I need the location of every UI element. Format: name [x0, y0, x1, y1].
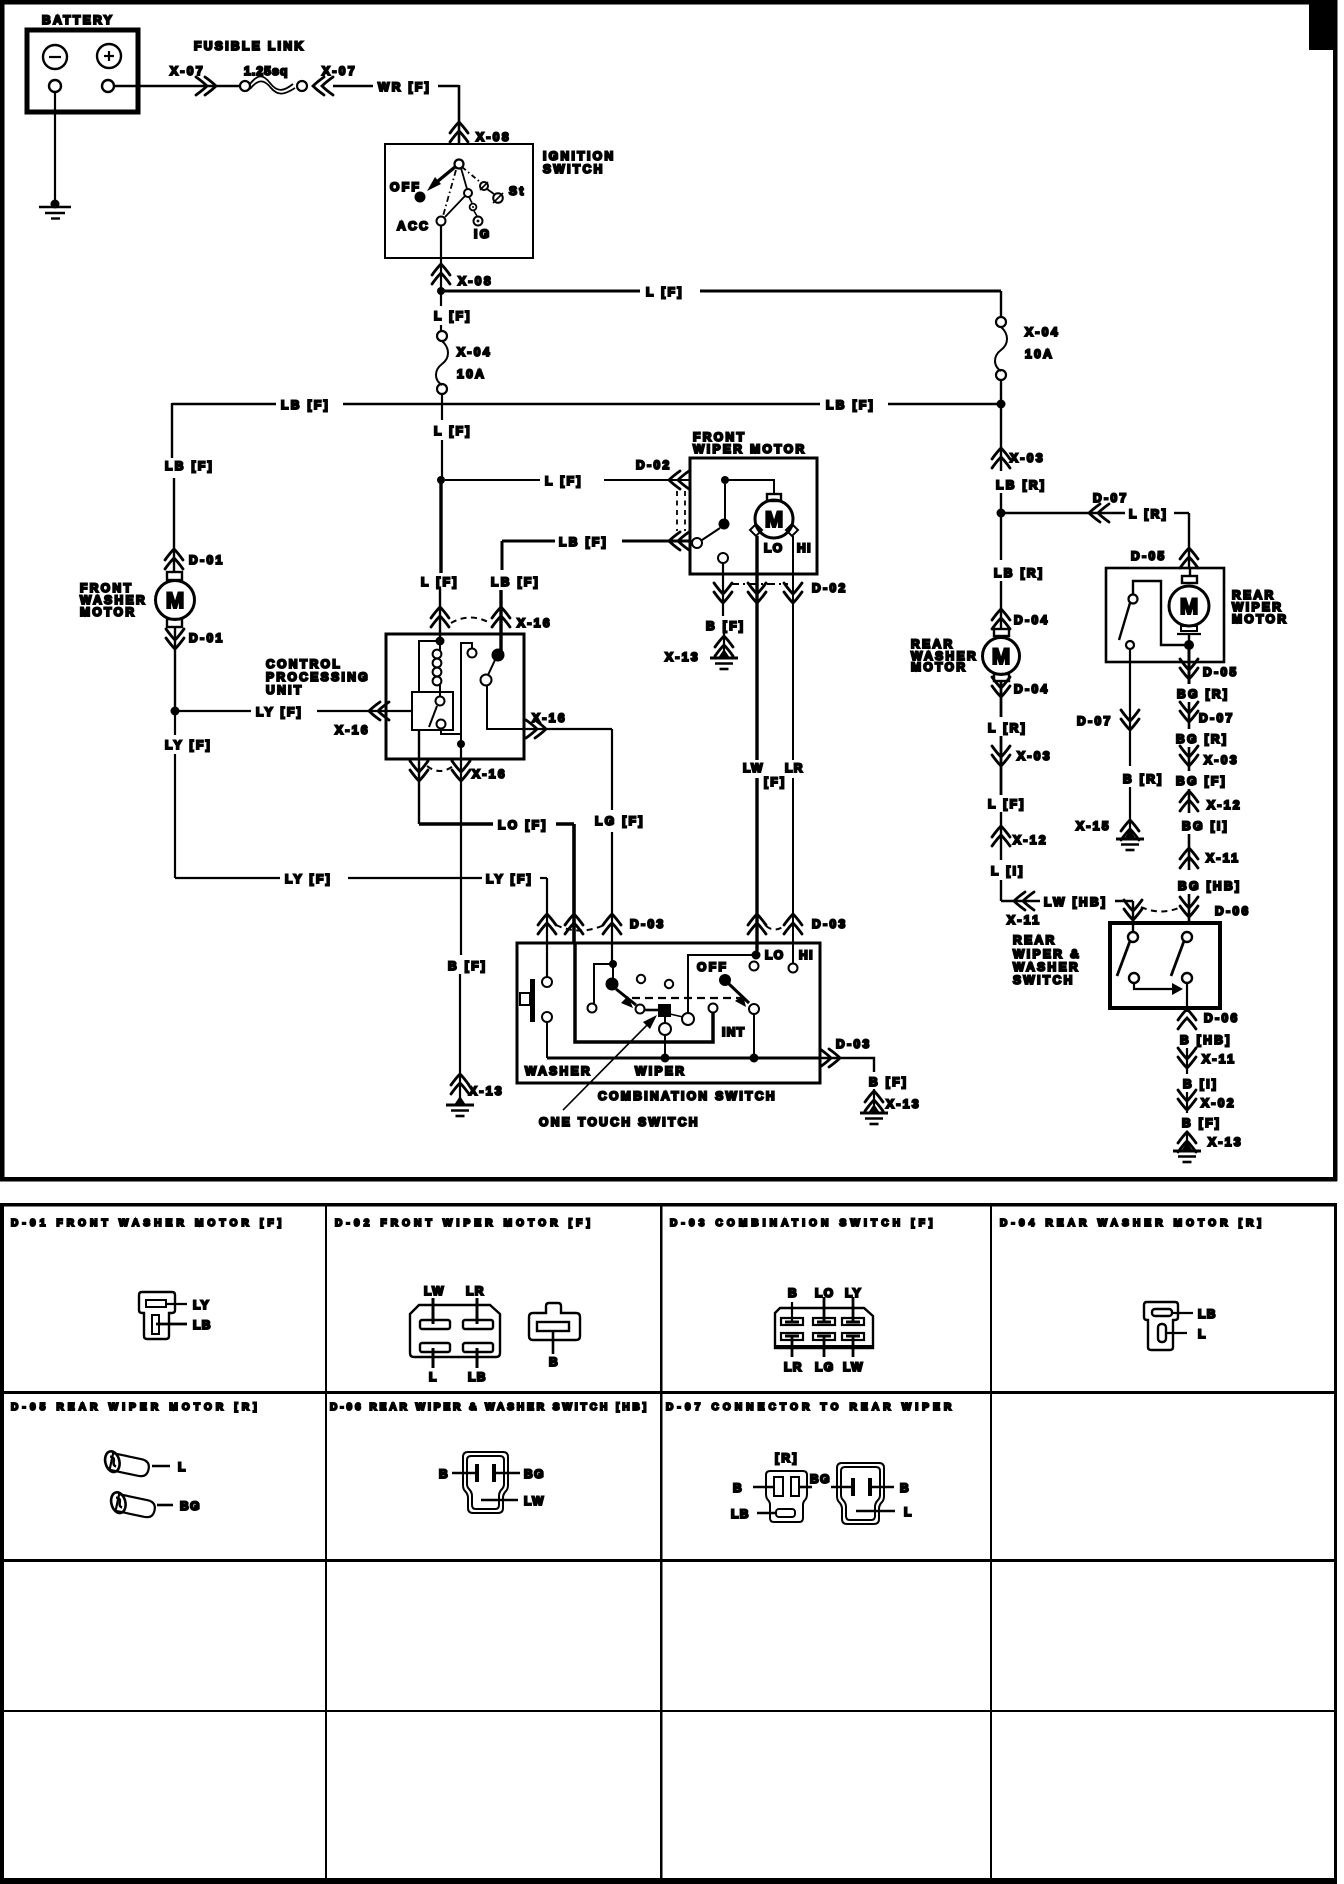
pin LB slot: [152, 1315, 159, 1334]
svg-text:LB: LB: [193, 1318, 212, 1332]
svg-text:D-05: D-05: [1131, 549, 1167, 563]
wire LY [F] down-run: [174, 711, 176, 735]
svg-text:LR: LR: [466, 1284, 485, 1298]
svg-text:X-11: X-11: [1206, 851, 1240, 865]
ground X-15: [1116, 830, 1144, 850]
connector X-11 down chevrons B: [1178, 1048, 1196, 1068]
page frame bottom bar: [0, 1177, 1337, 1182]
connector X-16 top L chevron: [431, 607, 449, 627]
rear wiper park switch wiring: [1133, 581, 1189, 645]
connector X-03 up chevrons: [992, 448, 1010, 468]
wire HI contact: [789, 964, 798, 973]
svg-text:LB [F]: LB [F]: [281, 398, 330, 412]
pin LB: [476, 1348, 479, 1368]
svg-text:WIPER MOTOR: WIPER MOTOR: [693, 442, 807, 456]
OFF arm with arrowhead: [729, 984, 749, 1003]
svg-text:M: M: [992, 644, 1010, 669]
svg-text:B [F]: B [F]: [706, 619, 745, 633]
wire L [F] thick feed into control unit: [439, 480, 442, 573]
page frame top bar: [0, 0, 1337, 5]
one touch links: [670, 1014, 683, 1017]
front wiper motor M: [767, 494, 781, 501]
pin B D-06: [475, 1464, 479, 1482]
wire B [F] from control unit to ground: [460, 744, 462, 955]
connector X-08 upper: [450, 122, 468, 142]
wire LR [F] down: [792, 536, 794, 760]
wire ACC output: [440, 226, 442, 291]
svg-text:LR: LR: [785, 761, 804, 775]
one touch switch contact square: [645, 1009, 658, 1012]
svg-text:WIPER: WIPER: [635, 1064, 686, 1078]
front washer motor: [167, 572, 182, 580]
svg-text:D-01: D-01: [189, 631, 225, 645]
svg-text:WIPER &: WIPER &: [1013, 947, 1081, 961]
ignition switch ACC contact: [437, 217, 446, 226]
connector D-02 small drawing: [529, 1303, 580, 1340]
wire B [F] to ground right of combination switch: [820, 1058, 874, 1072]
svg-text:LG: LG: [815, 1360, 834, 1374]
pin B D-07 left: [753, 1486, 774, 1489]
connector X-16 left: [369, 702, 389, 720]
svg-text:X-02: X-02: [1201, 1096, 1236, 1110]
connector D-02 lower left chevrons: [669, 532, 689, 550]
motor HI terminal: [786, 524, 798, 536]
node junction rear feed: [997, 509, 1006, 518]
rear washer motor: [994, 629, 1009, 636]
svg-text:ACC: ACC: [397, 219, 430, 233]
pin B D-07 right: [868, 1478, 872, 1496]
pin LG bottom: [823, 1337, 826, 1357]
wire LO [F] from control unit: [418, 730, 420, 824]
wire LW [F] down: [755, 536, 758, 760]
svg-text:L [F]: L [F]: [434, 424, 472, 438]
pin LO top: [823, 1297, 826, 1321]
rear wiper motor box: [1106, 568, 1224, 662]
svg-text:HI: HI: [799, 948, 814, 962]
svg-text:BG: BG: [180, 1499, 201, 1513]
connector X-13 chevrons wiper ground: [715, 636, 733, 656]
svg-text:SWITCH: SWITCH: [1013, 973, 1075, 987]
svg-text:X-03: X-03: [1017, 749, 1052, 763]
connector D-06 right down chevron: [1180, 897, 1198, 917]
connector X-11 up chevrons BG: [1180, 848, 1198, 868]
svg-text:B: B: [733, 1481, 743, 1495]
svg-text:L [R]: L [R]: [988, 721, 1027, 735]
node junction L feed: [437, 476, 445, 484]
svg-text:OFF: OFF: [390, 180, 421, 194]
wiper arm with arrowhead: [616, 989, 636, 1005]
svg-text:LY [F]: LY [F]: [486, 872, 533, 886]
relay coil: [439, 641, 441, 650]
svg-text:B: B: [788, 1286, 798, 1300]
svg-text:B [I]: B [I]: [1183, 1077, 1218, 1091]
svg-text:D-04: D-04: [1014, 682, 1050, 696]
connector D-06 drawing inner: [467, 1456, 504, 1509]
svg-text:D-03: D-03: [836, 1037, 872, 1051]
connector D-03 LO chevron: [565, 914, 583, 934]
pin LR: [476, 1298, 479, 1324]
svg-text:D-05 REAR WIPER MOTOR [R]: D-05 REAR WIPER MOTOR [R]: [11, 1402, 261, 1413]
connector X-13 chevrons combo ground: [865, 1091, 883, 1111]
svg-text:X-13: X-13: [886, 1097, 921, 1111]
ignition switch box: [385, 144, 533, 258]
connector D-03 LG chevron: [603, 914, 621, 934]
svg-text:B: B: [439, 1467, 449, 1481]
svg-text:L [F]: L [F]: [988, 797, 1026, 811]
svg-text:D-07: D-07: [1093, 491, 1129, 505]
wire B bus inside combination switch: [547, 1057, 820, 1060]
svg-text:X-04: X-04: [457, 345, 492, 359]
svg-text:[F]: [F]: [764, 775, 787, 789]
page frame corner block: [1309, 0, 1337, 50]
svg-text:BG [R]: BG [R]: [1176, 732, 1228, 746]
svg-text:INT: INT: [722, 1025, 746, 1039]
pin B top: [791, 1302, 793, 1321]
node junction coil top: [436, 637, 445, 646]
rear wiper and washer switch box: [1110, 923, 1220, 1008]
connector X-11 left chevrons: [1014, 892, 1034, 910]
svg-text:X-13: X-13: [1208, 1135, 1243, 1149]
svg-text:COMBINATION SWITCH: COMBINATION SWITCH: [598, 1089, 777, 1103]
wire B from park switch: [722, 563, 724, 616]
connector X-12 up chevrons BG: [1180, 791, 1198, 811]
battery negative terminal: [43, 45, 67, 69]
connector D-03 drawing: [775, 1308, 873, 1348]
node junction LY: [171, 707, 180, 716]
battery B1 box: [27, 30, 138, 112]
fusible link 1.25sq: [240, 81, 250, 91]
connector X-13 chevrons rear ground: [1178, 1132, 1196, 1152]
pin L: [432, 1348, 435, 1368]
svg-text:M: M: [765, 507, 783, 532]
pin BG D-07 right: [851, 1478, 855, 1496]
motor LO terminal: [750, 524, 762, 536]
control processing unit box: [386, 634, 524, 759]
svg-text:PROCESSING: PROCESSING: [266, 670, 370, 684]
svg-text:X-16: X-16: [517, 616, 552, 630]
svg-text:D-07: D-07: [1077, 714, 1113, 728]
svg-text:BG [R]: BG [R]: [1177, 687, 1229, 701]
connector D-07 left drawing: [766, 1471, 807, 1522]
connector D-01 drawing: [139, 1292, 175, 1339]
svg-text:LO [F]: LO [F]: [498, 818, 548, 832]
svg-text:IG: IG: [474, 227, 491, 241]
connector D-03 right chevrons: [748, 914, 766, 934]
pin LR bottom: [791, 1337, 794, 1357]
wire washer to B line: [546, 1022, 548, 1058]
connector D-04 down chevrons: [1000, 681, 1003, 717]
connector X-08 lower: [432, 264, 450, 284]
wire feed to motor top: [725, 480, 774, 494]
svg-text:X-16: X-16: [472, 767, 507, 781]
combination switch box: [517, 943, 820, 1083]
svg-text:B [F]: B [F]: [448, 959, 487, 973]
ignition switch IG chain: [461, 168, 467, 189]
svg-text:X-11: X-11: [1202, 1052, 1236, 1066]
bullet terminal L: [99, 1447, 151, 1481]
pin LY slot: [146, 1300, 166, 1307]
wire battery negative to ground: [54, 92, 56, 203]
svg-text:L: L: [1198, 1327, 1207, 1341]
svg-text:X-07: X-07: [322, 64, 357, 78]
wire B [R] from park switch: [1129, 649, 1131, 766]
connector X-13 chevrons left ground: [451, 1074, 469, 1094]
svg-text:D-07: D-07: [1199, 711, 1235, 725]
wire LG branch to left contact: [594, 964, 613, 1003]
svg-text:D-06: D-06: [1204, 1011, 1240, 1025]
connector D-03 dashed arc left: [556, 925, 604, 931]
svg-text:LB [F]: LB [F]: [491, 575, 540, 589]
ground X-13 wiper: [710, 649, 738, 669]
wire L [F] to right fuse: [441, 290, 640, 293]
svg-text:ONE TOUCH SWITCH: ONE TOUCH SWITCH: [539, 1115, 700, 1129]
connector X-03 down chevrons: [992, 746, 1010, 766]
wire LW [HB] horizontal: [1001, 900, 1040, 902]
ignition switch St branch: [462, 167, 480, 182]
svg-text:X-04: X-04: [1025, 325, 1060, 339]
svg-text:LB [R]: LB [R]: [994, 566, 1044, 580]
bullet terminal BG: [105, 1488, 157, 1522]
page frame right bar: [1333, 0, 1338, 1181]
connector D-05 down chevron: [1180, 659, 1198, 679]
svg-text:D-06 REAR WIPER & WASHER SWIT: D-06 REAR WIPER & WASHER SWITCH [HB]: [330, 1402, 649, 1413]
svg-text:LB: LB: [731, 1507, 750, 1521]
relay contact circles and arm: [436, 697, 445, 706]
connector D-04 up chevrons: [992, 609, 1010, 629]
relay contact box: [412, 692, 453, 730]
pin LB D-07: [776, 1509, 795, 1517]
unused contacts: [637, 975, 645, 983]
svg-text:B [HB]: B [HB]: [1180, 1033, 1232, 1047]
connector X-07 left-pointing chevrons: [313, 77, 333, 95]
svg-text:L: L: [178, 1460, 187, 1474]
svg-text:L [I]: L [I]: [991, 864, 1025, 878]
svg-text:D-06: D-06: [1215, 904, 1251, 918]
svg-text:B [F]: B [F]: [1182, 1116, 1221, 1130]
svg-text:L [F]: L [F]: [545, 474, 583, 488]
rear wiper motor M: [1189, 568, 1191, 576]
ignition switch OFF arm with arrowhead: [438, 167, 455, 181]
svg-text:D-03: D-03: [630, 917, 666, 931]
connector D-01 lower: [174, 627, 176, 711]
ground X-13 rear: [1173, 1142, 1201, 1162]
svg-text:LO: LO: [765, 948, 784, 962]
wire coil left branch: [419, 641, 440, 692]
ground battery: [51, 200, 60, 209]
svg-text:BATTERY: BATTERY: [42, 13, 114, 27]
svg-text:L: L: [429, 1370, 438, 1384]
svg-text:BG [F]: BG [F]: [1176, 774, 1227, 788]
wire battery positive to fusible link: [114, 85, 240, 88]
ground X-13 left: [446, 1096, 474, 1116]
svg-text:D-02: D-02: [812, 581, 848, 595]
pin L slot D-04: [1158, 1324, 1166, 1342]
wire fuse to LB crossing: [441, 394, 443, 420]
svg-text:LO: LO: [764, 541, 783, 555]
connector D-02 dashed lines: [676, 491, 678, 531]
svg-text:10A: 10A: [1025, 347, 1054, 361]
svg-text:B [F]: B [F]: [869, 1075, 908, 1089]
svg-text:X-07: X-07: [170, 64, 205, 78]
svg-text:X-03: X-03: [1204, 753, 1239, 767]
rear switch arms: [1117, 941, 1130, 976]
svg-text:B: B: [549, 1355, 559, 1369]
svg-text:D-01: D-01: [189, 553, 225, 567]
connector D-02 upper left chevrons: [669, 471, 689, 489]
connector D-07 right drawing inner: [841, 1467, 880, 1520]
wire LB [F] horizontal bus: [172, 403, 276, 405]
node junction rear wiper motor: [1188, 634, 1190, 648]
rear switch contacts: [1128, 932, 1138, 942]
fuse X-04 10A right: [1000, 291, 1002, 317]
svg-text:X-13: X-13: [469, 1084, 504, 1098]
connector D-07 left chevrons: [1089, 504, 1109, 522]
svg-text:WASHER: WASHER: [525, 1064, 592, 1078]
svg-text:LB [F]: LB [F]: [826, 398, 875, 412]
svg-text:D-07 CONNECTOR TO REAR WIPER: D-07 CONNECTOR TO REAR WIPER: [666, 1402, 955, 1413]
pin BG D-07: [799, 1486, 812, 1489]
svg-text:L: L: [904, 1505, 913, 1519]
svg-text:D-02 FRONT WIPER MOTOR [F]: D-02 FRONT WIPER MOTOR [F]: [335, 1218, 594, 1229]
connector D-03 LY chevron: [538, 914, 556, 934]
ignition switch pivot: [455, 160, 464, 169]
svg-text:X-08: X-08: [458, 274, 493, 288]
svg-text:D-01 FRONT WASHER MOTOR [F]: D-01 FRONT WASHER MOTOR [F]: [11, 1218, 285, 1229]
connector X-16 bottom chevrons: [410, 761, 428, 781]
wire LB blob and switch inside control unit: [492, 649, 505, 662]
pin BG D-06: [492, 1464, 496, 1482]
wire L [F] label to wiper motor: [445, 479, 540, 481]
connector D-03 B output chevrons: [820, 1049, 840, 1067]
svg-text:X-11: X-11: [1007, 913, 1041, 927]
rear switch output link with arrowhead: [1134, 983, 1176, 989]
svg-text:X-15: X-15: [1076, 819, 1111, 833]
one touch pointer arrow: [563, 1020, 652, 1110]
wire LO inner run to INT contact: [575, 943, 713, 1042]
svg-text:UNIT: UNIT: [266, 683, 304, 697]
svg-text:LW [HB]: LW [HB]: [1044, 895, 1107, 909]
svg-text:LY [F]: LY [F]: [256, 705, 303, 719]
svg-text:HI: HI: [797, 541, 812, 555]
svg-text:D-03: D-03: [812, 917, 848, 931]
node junction control unit output: [457, 740, 465, 748]
connector X-07 right-pointing chevrons: [196, 77, 216, 95]
pin LW: [432, 1298, 435, 1324]
contact arm end: [636, 1005, 645, 1014]
wiper arm pivot: [606, 978, 619, 991]
svg-text:X-08: X-08: [476, 130, 511, 144]
svg-text:WR [F]: WR [F]: [378, 80, 431, 94]
wire LG [F] from control unit: [522, 728, 612, 730]
svg-text:WASHER: WASHER: [1013, 960, 1080, 974]
svg-text:OFF: OFF: [697, 960, 728, 974]
page frame left bar: [0, 0, 5, 1181]
wire LB [F] to wiper motor and control unit: [502, 540, 555, 543]
connector table frame: [0, 1203, 1337, 1207]
svg-text:L [R]: L [R]: [1129, 507, 1168, 521]
node junction X-08 output: [437, 287, 445, 295]
connector X-03 down chevrons BG: [1180, 746, 1198, 766]
svg-text:M: M: [166, 588, 184, 613]
connector X-15 chevrons ground: [1121, 820, 1139, 840]
svg-text:X-12: X-12: [1013, 833, 1048, 847]
pin L D-07 right: [856, 1510, 895, 1513]
dashed gang line: [632, 997, 740, 999]
svg-text:M: M: [1180, 594, 1198, 619]
svg-text:L [F]: L [F]: [434, 309, 472, 323]
svg-text:LB [R]: LB [R]: [996, 478, 1046, 492]
svg-text:X-03: X-03: [1010, 451, 1045, 465]
svg-text:B: B: [900, 1481, 910, 1495]
pin LW bottom: [852, 1337, 855, 1357]
svg-text:X-12: X-12: [1207, 798, 1242, 812]
wire L [F] into left fuse: [440, 291, 442, 306]
wire LO [F] horizontal: [419, 822, 493, 826]
svg-text:LY: LY: [845, 1286, 862, 1300]
svg-text:IGNITION: IGNITION: [543, 149, 616, 163]
front wiper motor box: [690, 458, 817, 574]
connector D-02 drawing: [410, 1305, 500, 1357]
svg-text:D-03 COMBINATION SWITCH [F]: D-03 COMBINATION SWITCH [F]: [670, 1218, 937, 1229]
wiper park switch: [724, 484, 726, 519]
connector D-07 right drawing outer: [837, 1463, 884, 1524]
svg-text:D-02: D-02: [636, 458, 672, 472]
svg-text:LW: LW: [424, 1284, 445, 1298]
connector D-07 down chevron B: [1121, 710, 1139, 730]
svg-text:B [R]: B [R]: [1123, 772, 1164, 786]
svg-text:X-16: X-16: [335, 723, 370, 737]
node junction LB right: [997, 400, 1006, 409]
svg-text:10A: 10A: [457, 367, 486, 381]
connector D-05 up chevron: [1180, 548, 1198, 568]
wire LB [R] down right side: [1000, 404, 1002, 471]
svg-text:BG [I]: BG [I]: [1182, 819, 1229, 833]
svg-text:LB [F]: LB [F]: [559, 535, 608, 549]
connector D-06 left down chevron: [1124, 900, 1142, 920]
svg-text:LY [F]: LY [F]: [165, 738, 212, 752]
wire sense branch with circle: [468, 649, 477, 658]
wire L [R] branch to rear wiper motor: [1001, 512, 1125, 514]
connector X-16 top LB chevron: [492, 607, 510, 627]
svg-text:CONTROL: CONTROL: [266, 657, 342, 671]
svg-text:MOTOR: MOTOR: [911, 660, 967, 674]
svg-text:LW: LW: [843, 1360, 864, 1374]
connector D-07 down chevron BG: [1180, 702, 1198, 722]
wire LW feed to one touch circle: [688, 955, 756, 1013]
svg-text:LO: LO: [815, 1286, 834, 1300]
wire relay output to node: [441, 729, 461, 744]
svg-text:[R]: [R]: [775, 1451, 799, 1465]
connector D-02 bottom chevrons: [714, 583, 732, 603]
connector D-01 upper: [165, 549, 183, 569]
connector D-04 drawing: [1144, 1302, 1178, 1350]
connector D-06 up chevrons output: [1178, 1009, 1196, 1029]
wire LB [R] down to rear washer motor: [1000, 513, 1002, 560]
ignition switch ACC to IG link: [445, 196, 465, 217]
contact INT: [709, 1004, 718, 1013]
ground X-13 combo: [860, 1104, 888, 1124]
pin LW D-06: [481, 1499, 518, 1502]
battery positive terminal: [97, 44, 121, 68]
svg-text:D-05: D-05: [1203, 665, 1239, 679]
svg-text:LW: LW: [743, 761, 764, 775]
svg-text:LB: LB: [468, 1370, 487, 1384]
washer push switch contacts: [542, 977, 552, 987]
svg-text:LY: LY: [193, 1298, 210, 1312]
pin LY top: [852, 1297, 855, 1321]
pin LB slot D-04: [1152, 1309, 1172, 1316]
svg-text:LW: LW: [524, 1494, 545, 1508]
